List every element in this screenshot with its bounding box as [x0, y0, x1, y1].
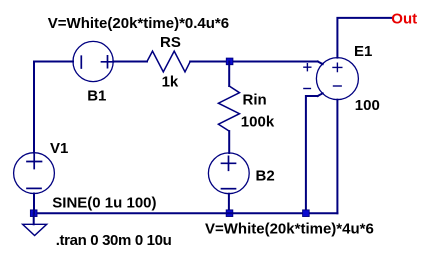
wire junction to Rin	[228, 62, 230, 87]
voltage source B1	[73, 41, 114, 81]
junction node RS/Rin	[226, 58, 233, 65]
junction node B2/rail	[226, 210, 233, 217]
wire left L (B1 left to V1 top)	[34, 62, 73, 153]
voltage source V1	[14, 153, 55, 194]
junction node ground	[30, 210, 37, 217]
voltage source B2	[208, 153, 249, 194]
svg-text:V1: V1	[50, 140, 68, 157]
wire E1 control minus to rail	[306, 96, 318, 213]
svg-text:E1: E1	[354, 43, 372, 60]
wire bottom rail	[34, 212, 337, 214]
wire V1 to rail	[33, 194, 35, 214]
ground	[23, 224, 47, 235]
svg-text:Rin: Rin	[243, 92, 267, 109]
dependent source E1	[304, 58, 359, 100]
wire Rin to B2	[228, 131, 230, 153]
svg-text:.tran 0 30m 0 10u: .tran 0 30m 0 10u	[56, 232, 172, 249]
svg-text:Out: Out	[391, 10, 417, 27]
svg-text:V=White(20k*time)*4u*6: V=White(20k*time)*4u*6	[205, 220, 374, 237]
resistor RS	[147, 51, 190, 72]
wire E1 output to Out	[337, 18, 391, 58]
wire ground stub	[33, 213, 35, 224]
svg-text:100k: 100k	[241, 114, 275, 131]
svg-text:SINE(0 1u 100): SINE(0 1u 100)	[52, 195, 156, 212]
wire B2 to bottom rail	[228, 194, 230, 214]
svg-text:1k: 1k	[162, 74, 179, 91]
resistor Rin	[218, 86, 239, 131]
junction node ctrl-minus/rail	[303, 210, 310, 217]
svg-text:100: 100	[355, 97, 380, 114]
svg-text:V=White(20k*time)*0.4u*6: V=White(20k*time)*0.4u*6	[48, 15, 229, 32]
wire junction to E1 control plus	[230, 61, 318, 63]
svg-text:B1: B1	[87, 87, 106, 104]
wire E1 bottom to rail	[336, 100, 338, 214]
wire RS to junction	[190, 61, 229, 63]
svg-text:B2: B2	[256, 168, 275, 185]
svg-text:RS: RS	[160, 34, 181, 51]
wire B1 to RS	[113, 61, 147, 63]
